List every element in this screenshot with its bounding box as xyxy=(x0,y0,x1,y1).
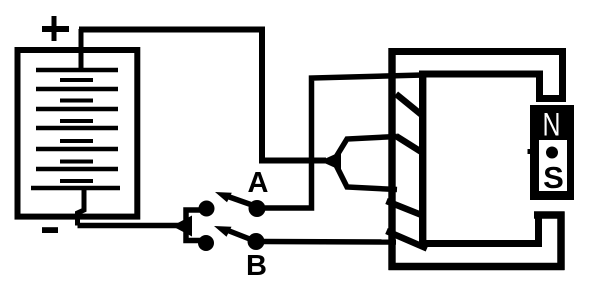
coil core frame top arm stub inner face xyxy=(536,71,543,102)
coil core frame inner bottom edge xyxy=(419,240,542,247)
coil core frame bottom arm end cap xyxy=(534,211,565,219)
coil core frame inner top edge xyxy=(419,71,543,78)
switch contact B dot xyxy=(198,235,214,251)
battery positive terminal label + xyxy=(42,16,69,41)
magnet axle nub xyxy=(528,149,532,154)
magnet body xyxy=(530,105,574,200)
svg-text:A: A xyxy=(248,167,269,199)
wire from + terminal to coil fork xyxy=(79,30,326,161)
wire from - terminal to switch common xyxy=(78,223,181,229)
battery negative tap wire xyxy=(78,190,85,226)
coil winding turn 4 xyxy=(387,231,428,249)
battery B1 case xyxy=(18,50,138,217)
coil core frame inner left edge xyxy=(419,71,426,247)
coil core frame bottom arm stub inner face xyxy=(535,212,542,247)
fork upper branch wire to coil tap xyxy=(336,137,397,158)
fork junction node xyxy=(320,152,341,171)
coil winding turn 3 xyxy=(387,201,425,216)
switch arm A xyxy=(215,192,254,206)
svg-text:N: N xyxy=(543,107,561,143)
switch common junction xyxy=(172,216,192,237)
switch contact A dot xyxy=(199,201,215,217)
fork lower branch wire to coil tap xyxy=(336,165,397,190)
wire from contact B pivot to coil bottom xyxy=(264,239,396,245)
battery negative terminal label - xyxy=(42,227,58,233)
battery B1 long plates xyxy=(31,70,120,188)
coil core frame outer top edge xyxy=(389,48,567,55)
svg-text:B: B xyxy=(246,250,267,282)
coil core frame outer bottom edge xyxy=(389,263,565,271)
svg-text:S: S xyxy=(543,160,564,195)
wire from contact A pivot to coil top xyxy=(265,75,423,208)
coil core frame bottom arm outer right edge xyxy=(557,212,565,271)
magnet pivot dot xyxy=(546,147,558,159)
coil core frame top arm end cap xyxy=(536,95,566,102)
coil winding turn 2 xyxy=(396,136,423,153)
coil core frame outer left edge xyxy=(388,48,395,270)
coil core frame top arm outer right edge xyxy=(559,48,566,102)
switch pivot B dot xyxy=(248,233,265,250)
switch common bracket wire xyxy=(186,210,201,241)
battery positive tap wire xyxy=(79,29,84,68)
switch pivot A dot xyxy=(249,200,266,217)
battery B1 short plates xyxy=(60,80,93,181)
magnet window xyxy=(539,140,567,191)
coil winding turn 1 xyxy=(396,94,423,116)
switch arm B xyxy=(214,226,254,241)
